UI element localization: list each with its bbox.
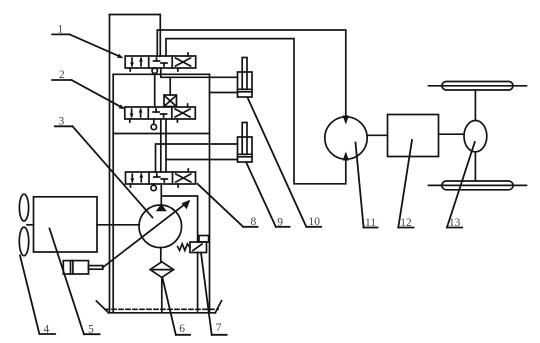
leader label 10 <box>248 98 322 227</box>
wire axle lower <box>474 152 476 181</box>
leader label 8 <box>198 184 258 227</box>
valve U1 (directional valve 1) <box>125 53 196 71</box>
wire left wall outer <box>109 15 111 313</box>
wire enclosure mid horizontal <box>113 133 209 135</box>
wire pilot box riser <box>169 77 171 95</box>
wire top frame horizontal <box>110 15 161 57</box>
leader lines <box>20 34 475 334</box>
leader label 13 <box>447 142 475 228</box>
leader label 3 <box>55 126 153 217</box>
node junction circle below valve 1 <box>152 68 157 73</box>
wire right long vertical <box>209 74 211 311</box>
wheel bottom <box>429 181 527 190</box>
wire branch enclosure top <box>113 73 209 75</box>
svg-text:5: 5 <box>88 324 94 336</box>
wire pump suction <box>160 248 162 262</box>
node junction circle below valve 3 <box>151 185 156 190</box>
wire valve1 B port to cylinder 10 top <box>161 68 238 77</box>
svg-text:9: 9 <box>277 217 283 229</box>
leader label 4 <box>20 256 55 335</box>
wire arrow into motor top <box>343 116 349 125</box>
leader label 11 <box>356 143 378 228</box>
tank <box>96 301 221 313</box>
wire valve3 bottom stub <box>153 184 155 185</box>
wire stack line valve2 stub <box>153 119 155 124</box>
wire second top line to return <box>166 39 346 184</box>
leader label 6 <box>163 278 191 335</box>
valve U2 (directional valve 2) <box>125 104 196 122</box>
leader label 9 <box>247 163 290 227</box>
pump P1 <box>139 204 182 248</box>
wire motor to gearbox <box>367 134 387 136</box>
fan propeller <box>19 194 28 255</box>
wire relief feed <box>163 196 198 242</box>
engine box 5 <box>34 197 98 252</box>
servo cylinder (pump control) <box>63 261 103 274</box>
svg-text:3: 3 <box>59 116 65 128</box>
wire valve3 to pump <box>160 184 162 205</box>
differential ellipse <box>464 121 487 152</box>
svg-text:7: 7 <box>216 322 222 334</box>
svg-text:13: 13 <box>449 217 461 229</box>
svg-text:6: 6 <box>179 323 185 335</box>
svg-text:8: 8 <box>251 216 257 228</box>
wire arrow into motor bottom <box>343 152 349 161</box>
wire cylinder 9 bottom line <box>166 119 238 160</box>
wire stack line valve1 to valve2 <box>154 68 156 107</box>
wire feed line to motor (top) <box>157 30 345 118</box>
wire cylinder 10 bottom line <box>210 92 238 94</box>
wire left wall inner <box>112 74 114 312</box>
wire relief to tank <box>197 253 199 312</box>
svg-text:10: 10 <box>309 216 321 228</box>
wire valve2 B to valve3 top <box>165 160 167 173</box>
motor M11 <box>325 117 367 159</box>
leader label 1 <box>52 34 123 58</box>
cylinder C9 (lower) <box>238 123 253 163</box>
node junction circle below valve 2 <box>151 124 156 129</box>
leader label 5 <box>50 229 100 335</box>
valve U3 (directional valve 3) <box>126 169 196 187</box>
swashplate arrow through pump <box>103 200 191 268</box>
svg-text:12: 12 <box>400 217 412 229</box>
leader label 7 <box>201 253 227 335</box>
svg-text:1: 1 <box>58 24 64 36</box>
cylinder C10 (upper) <box>238 58 253 98</box>
wire gearbox to differential <box>439 133 465 135</box>
wire engine to pump shaft <box>97 224 139 226</box>
svg-text:4: 4 <box>44 324 50 336</box>
filter F1 <box>150 262 174 278</box>
gearbox box 12 <box>388 115 439 157</box>
leader label 2 <box>52 80 125 109</box>
wire valve2 to valve3 vertical <box>160 119 162 172</box>
wire fan shaft <box>27 224 34 226</box>
wheel top <box>429 82 527 91</box>
check valve pilot box above valve 2 <box>164 95 177 107</box>
wire axle upper <box>474 90 476 121</box>
wire filter to tank <box>161 277 163 311</box>
svg-text:2: 2 <box>59 69 65 81</box>
svg-text:11: 11 <box>365 217 376 229</box>
wire cylinder 9 top line <box>156 144 238 172</box>
relief valve RV <box>178 236 209 253</box>
leader label 12 <box>398 140 413 228</box>
